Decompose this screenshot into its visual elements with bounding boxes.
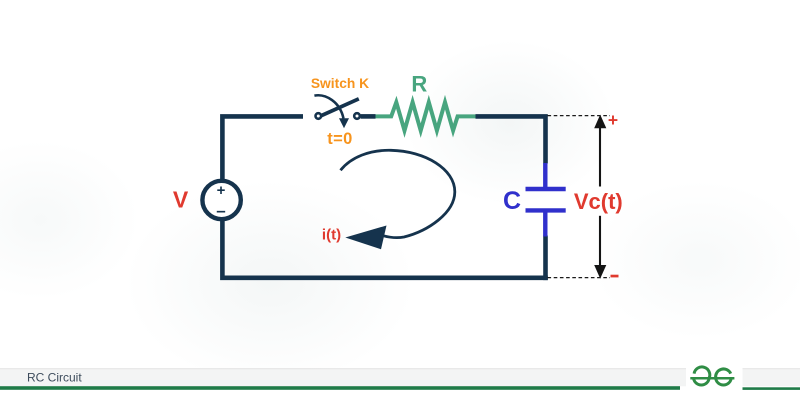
svg-text:+: + [217,182,226,199]
svg-text:C: C [503,187,521,215]
svg-text:RC Circuit: RC Circuit [27,370,82,384]
svg-text:R: R [411,72,427,97]
svg-text:t=0: t=0 [327,130,353,148]
svg-text:V: V [173,187,189,213]
svg-text:Switch K: Switch K [311,76,369,91]
svg-text:+: + [608,110,618,130]
svg-text:Vc(t): Vc(t) [574,189,623,214]
svg-text:–: – [216,201,225,220]
svg-text:i(t): i(t) [322,227,341,244]
